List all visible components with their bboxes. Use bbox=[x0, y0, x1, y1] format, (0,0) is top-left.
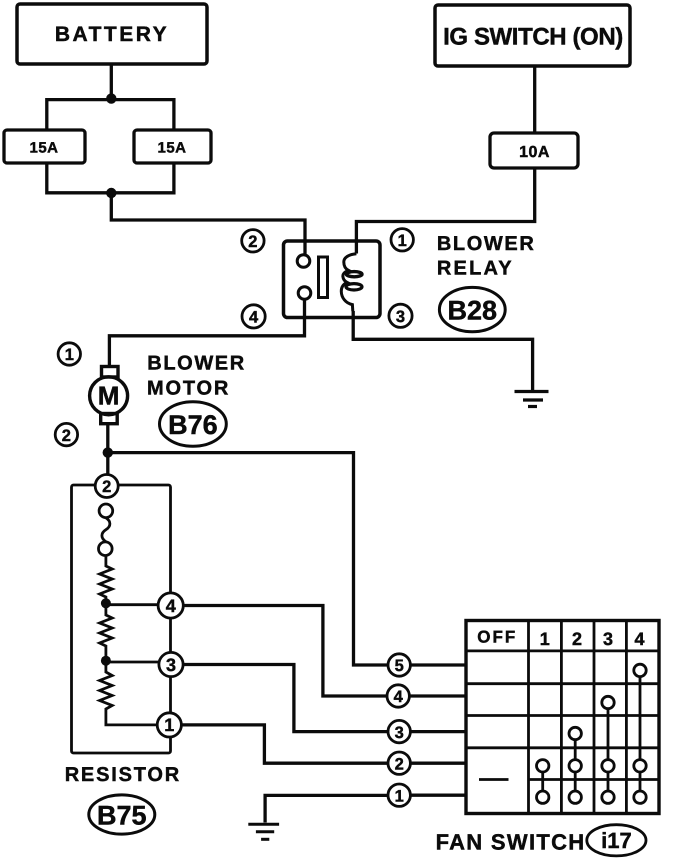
resistor pin 4 bbox=[158, 593, 183, 618]
svg-text:B76: B76 bbox=[168, 410, 218, 440]
wire pin 2 stub to fan switch bbox=[410, 762, 466, 765]
resistor element segment 2 bbox=[100, 603, 113, 660]
pin label 5 (fan switch) bbox=[388, 654, 410, 676]
wire resistor pin 4 to fan switch 4 bbox=[183, 606, 387, 697]
thermal limiter circle bottom bbox=[99, 542, 113, 556]
wire battery to junction bbox=[110, 64, 113, 100]
svg-text:1: 1 bbox=[164, 715, 174, 735]
label BLOWER RELAY bbox=[437, 233, 535, 280]
fuse 15A left bbox=[4, 130, 85, 163]
column separator 2/3 bbox=[593, 621, 596, 814]
row separator 1/2 bbox=[466, 682, 659, 685]
switch contacts column 1 bbox=[537, 760, 549, 804]
pin label 2 (fan switch) bbox=[388, 752, 410, 774]
wire pin 3 stub to fan switch bbox=[410, 730, 466, 733]
svg-text:B28: B28 bbox=[448, 296, 498, 326]
thermal limiter wavy element bbox=[102, 518, 110, 542]
svg-text:2: 2 bbox=[62, 427, 71, 445]
junction node (motor out) bbox=[103, 447, 113, 457]
blower motor M bbox=[90, 367, 128, 424]
wire resistor pin 1 to fan switch 2 bbox=[181, 725, 388, 763]
wire pin 1 stub to fan switch bbox=[410, 794, 466, 797]
wire motor to junction bbox=[106, 424, 109, 453]
relay terminal pin 2 bbox=[297, 255, 310, 268]
pin label 1 (fan switch) bbox=[388, 784, 410, 806]
pin label 4 (fan switch) bbox=[387, 685, 409, 707]
svg-text:3: 3 bbox=[395, 724, 404, 742]
pin label 3 (fan switch) bbox=[388, 720, 410, 742]
svg-text:2: 2 bbox=[395, 755, 404, 773]
tap node 3 bbox=[101, 656, 111, 666]
svg-text:3: 3 bbox=[603, 629, 613, 649]
pin label 4 (relay) bbox=[242, 305, 265, 328]
svg-text:B75: B75 bbox=[97, 800, 147, 830]
pin label 2 (motor) bbox=[55, 423, 77, 445]
thermal limiter circle top bbox=[99, 504, 113, 518]
row separator 2/3 bbox=[466, 714, 659, 717]
resistor element segment 3 bbox=[100, 661, 158, 725]
row separator 3/4 bbox=[466, 746, 659, 749]
row separator 4/5 broken in OFF column bbox=[479, 778, 659, 781]
svg-text:10A: 10A bbox=[519, 144, 550, 161]
switch contacts column 3 bbox=[602, 696, 614, 803]
resistor pin 3 bbox=[159, 652, 183, 676]
wire relay pin 4 to blower motor bbox=[109, 299, 304, 367]
wire junction to fan switch pin 5 bbox=[108, 453, 388, 665]
connector B28 bbox=[439, 287, 505, 331]
tap wire to pin 3 bbox=[106, 661, 158, 664]
wire junction to resistor pin 2 bbox=[106, 453, 109, 475]
wire pin 5 stub to fan switch bbox=[410, 663, 466, 666]
svg-text:MOTOR: MOTOR bbox=[147, 378, 230, 400]
battery box bbox=[17, 4, 207, 64]
resistor pin 2 bbox=[95, 475, 118, 498]
wire fuse to relay pin 1 bbox=[356, 168, 534, 254]
ground (relay) bbox=[515, 392, 549, 407]
resistor box B75 bbox=[72, 485, 171, 753]
connector B75 bbox=[89, 795, 155, 834]
relay terminal pin 4 bbox=[298, 287, 311, 300]
svg-text:2: 2 bbox=[102, 478, 111, 496]
fuse 10A bbox=[490, 133, 578, 168]
svg-text:4: 4 bbox=[634, 629, 644, 649]
svg-text:4: 4 bbox=[249, 309, 259, 327]
relay contact bar bbox=[319, 257, 328, 298]
tap wire to pin 4 bbox=[106, 603, 158, 606]
wire ground to fan switch 1 bbox=[265, 795, 388, 822]
wire IG switch to fuse bbox=[533, 66, 536, 133]
fan switch box i17 bbox=[466, 621, 659, 814]
svg-text:BATTERY: BATTERY bbox=[55, 23, 169, 46]
svg-text:M: M bbox=[98, 381, 120, 411]
svg-text:2: 2 bbox=[572, 629, 582, 649]
wire relay pin 3 to ground bbox=[353, 311, 532, 390]
svg-text:2: 2 bbox=[248, 233, 257, 251]
relay coil bbox=[341, 254, 362, 311]
svg-text:RESISTOR: RESISTOR bbox=[65, 764, 181, 786]
pin label 3 (relay) bbox=[389, 304, 412, 327]
pin label 2 (relay) bbox=[242, 230, 264, 252]
svg-text:RELAY: RELAY bbox=[437, 258, 514, 280]
svg-text:5: 5 bbox=[395, 657, 404, 675]
svg-text:i17: i17 bbox=[601, 828, 632, 853]
switch contacts column 2 bbox=[569, 727, 581, 803]
connector i17 bbox=[587, 825, 646, 856]
column separator OFF/1 bbox=[527, 621, 530, 814]
connector B76 bbox=[160, 402, 227, 446]
wire fuse branch bottom bbox=[47, 163, 174, 193]
svg-text:OFF: OFF bbox=[477, 628, 517, 647]
row separator header bbox=[466, 650, 659, 653]
fuse 15A right bbox=[134, 130, 211, 163]
column separator 1/2 bbox=[560, 621, 563, 814]
wire junction to relay pin 2 bbox=[111, 193, 305, 261]
svg-text:1: 1 bbox=[398, 232, 407, 250]
junction node (fuses join) bbox=[106, 188, 116, 198]
resistor pin 1 bbox=[157, 713, 181, 737]
svg-text:FAN SWITCH: FAN SWITCH bbox=[436, 830, 586, 855]
svg-text:BLOWER: BLOWER bbox=[147, 353, 245, 375]
IG switch box bbox=[435, 5, 630, 66]
column separator 3/4 bbox=[625, 621, 628, 814]
wire pin 4 stub to fan switch bbox=[409, 694, 466, 697]
wire resistor pin 3 to fan switch 3 bbox=[183, 665, 388, 732]
svg-text:15A: 15A bbox=[157, 140, 186, 157]
switch contacts column 4 bbox=[634, 664, 646, 803]
resistor element segment 1 bbox=[100, 556, 113, 604]
svg-text:15A: 15A bbox=[29, 140, 58, 157]
svg-text:4: 4 bbox=[394, 688, 404, 706]
tap node 4 bbox=[101, 598, 111, 608]
relay box B28 bbox=[284, 241, 381, 318]
wire fuse branch top bbox=[47, 100, 174, 130]
svg-text:1: 1 bbox=[395, 787, 404, 805]
svg-text:4: 4 bbox=[166, 596, 176, 616]
svg-text:1: 1 bbox=[540, 629, 550, 649]
svg-text:1: 1 bbox=[65, 346, 74, 364]
svg-text:IG SWITCH (ON): IG SWITCH (ON) bbox=[443, 24, 623, 51]
pin label 1 (motor) bbox=[58, 343, 80, 365]
svg-text:3: 3 bbox=[166, 655, 176, 675]
pin label 1 (relay) bbox=[391, 229, 413, 251]
junction node (battery feed) bbox=[106, 93, 116, 103]
ground (fan switch) bbox=[248, 824, 279, 839]
svg-text:BLOWER: BLOWER bbox=[437, 233, 535, 255]
label BLOWER MOTOR bbox=[147, 353, 246, 400]
svg-text:3: 3 bbox=[396, 308, 405, 326]
